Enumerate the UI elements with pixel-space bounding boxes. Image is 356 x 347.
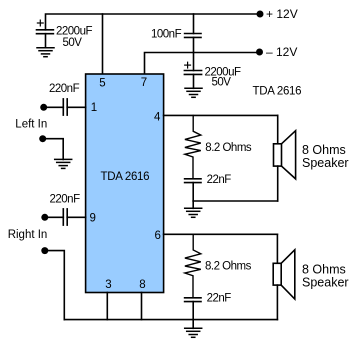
capacitor C4 220nF (63, 99, 67, 115)
svg-text:TDA 2616: TDA 2616 (101, 171, 150, 183)
svg-text:4: 4 (154, 112, 161, 124)
node right input ground (41, 247, 48, 254)
capacitor C5 220nF (63, 209, 67, 225)
svg-text:8.2 Ohms: 8.2 Ohms (205, 261, 252, 273)
svg-text:22nF: 22nF (207, 174, 232, 186)
wire right input to C5 (45, 216, 64, 218)
capacitor C7 22nF (185, 298, 201, 302)
svg-text:8.2 Ohms: 8.2 Ohms (205, 142, 252, 154)
svg-text:50V: 50V (63, 37, 83, 49)
svg-text:Speaker: Speaker (302, 276, 349, 290)
svg-text:3: 3 (105, 279, 111, 291)
svg-text:+ 12V: + 12V (266, 7, 298, 21)
wire ground stem upper loop (192, 201, 194, 208)
svg-text:2200uF: 2200uF (56, 26, 92, 38)
svg-text:22nF: 22nF (207, 293, 232, 305)
wire pin 6 output (164, 233, 278, 235)
svg-text:220nF: 220nF (50, 194, 81, 206)
svg-text:100nF: 100nF (151, 28, 182, 40)
svg-text:Left In: Left In (15, 118, 47, 130)
svg-text:7: 7 (141, 77, 147, 89)
ground under C3 (185, 88, 202, 97)
resistor R2 8.2 Ohms (185, 234, 201, 297)
wire speaker SP2 top lead (276, 234, 278, 263)
capacitor C3 2200uF (184, 53, 201, 89)
wire speaker SP1 top lead (277, 115, 279, 144)
svg-text:50V: 50V (212, 77, 232, 89)
wire 100nF branch from top rail (193, 14, 195, 34)
wire upper loop bottom (193, 200, 278, 202)
ground upper loop (185, 208, 202, 217)
svg-text:9: 9 (90, 212, 96, 224)
wire speaker SP1 bottom lead (277, 166, 279, 201)
wire pin 5 supply (102, 14, 104, 74)
wire pin 8 to rail (141, 293, 143, 320)
node -12V terminal (256, 49, 263, 56)
capacitor C6 22nF (185, 179, 201, 183)
capacitor C1 2200uF (37, 20, 54, 48)
svg-text:1: 1 (91, 102, 97, 114)
ground bottom rail (185, 328, 202, 337)
svg-text:220nF: 220nF (49, 83, 80, 95)
node right input (41, 214, 48, 221)
speaker SP2 (273, 250, 295, 299)
node left input ground (39, 135, 46, 142)
svg-text:8 Ohms: 8 Ohms (302, 263, 346, 277)
svg-text:6: 6 (155, 230, 161, 242)
node left input (40, 104, 47, 111)
svg-text:– 12V: – 12V (266, 45, 297, 59)
wire C6 to ground node (192, 183, 194, 201)
wire C2 to -12V rail (193, 37, 195, 52)
wire pin 4 output (164, 114, 278, 116)
wire pin 3 to rail (106, 293, 108, 320)
wire left input to C4 (44, 106, 64, 108)
wire left input ground branch (43, 139, 64, 160)
ground under C1 (37, 48, 54, 57)
wire bottom ground rail (64, 319, 277, 321)
svg-text:8: 8 (139, 279, 145, 291)
ground left input (55, 159, 72, 168)
node +12V terminal (257, 11, 264, 18)
svg-text:TDA 2616: TDA 2616 (253, 86, 302, 98)
speaker SP1 (274, 131, 296, 179)
wire C7 to bottom rail (192, 302, 194, 320)
op-amp IC U1 TDA 2616 body (86, 74, 164, 293)
resistor R1 8.2 Ohms (185, 115, 201, 178)
wire ground stem bottom (192, 320, 194, 329)
wire C4 to pin 1 (67, 106, 85, 108)
capacitor C2 100nF (185, 34, 201, 38)
svg-text:8 Ohms: 8 Ohms (302, 143, 346, 157)
wire -12V rail (145, 53, 260, 75)
wire speaker SP2 bottom lead (276, 285, 278, 320)
svg-text:5: 5 (99, 78, 105, 90)
svg-text:Right In: Right In (8, 229, 48, 241)
svg-text:Speaker: Speaker (302, 156, 349, 170)
wire +12V top rail (46, 14, 261, 30)
wire right input ground branch (45, 251, 65, 320)
wire C5 to pin 9 (67, 216, 85, 218)
